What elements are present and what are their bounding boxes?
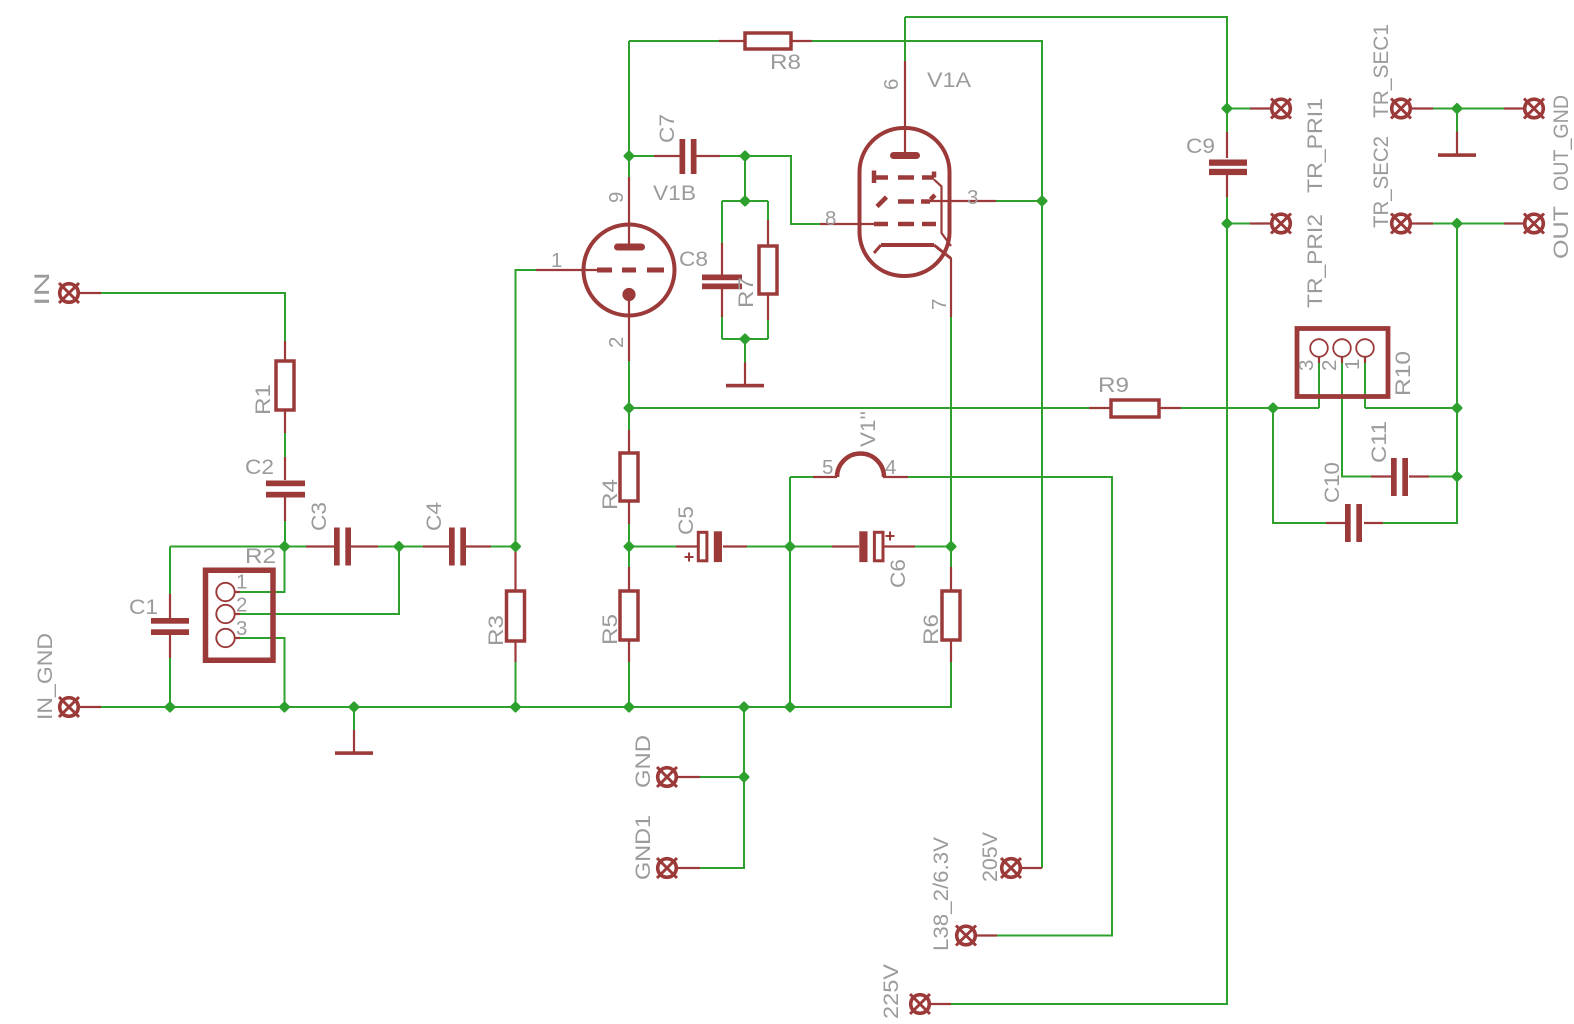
svg-text:C9: C9: [1186, 134, 1215, 158]
wire top net: [905, 17, 1227, 132]
wire R2 pin3: [240, 638, 285, 707]
wire R9 row right: [1181, 407, 1319, 409]
wire R10 pin1 to right col: [1365, 407, 1457, 409]
wire C2 to node: [284, 521, 286, 547]
pin stub C2 top: [284, 457, 286, 480]
wire R7 branch bottom: [767, 320, 769, 339]
pin stub R10 pin3: [1318, 357, 1320, 363]
pin stub C3 left: [306, 545, 334, 547]
pin stub L38: [977, 934, 997, 936]
wire heater right: [908, 477, 1112, 936]
wire V1B pin1 net: [516, 270, 537, 547]
wire V1B pin2 link: [628, 361, 630, 408]
node bus R5: [625, 703, 634, 712]
wire C1 bottom: [169, 658, 171, 707]
svg-text:C2: C2: [245, 455, 274, 479]
pin stub V1B pin9: [628, 177, 630, 246]
pin stub ground left: [353, 730, 355, 752]
node C2 C3: [280, 542, 289, 551]
pin stub R5 bottom: [628, 640, 630, 662]
wire IN net: [101, 293, 285, 341]
svg-text:TR_PRI2: TR_PRI2: [1303, 214, 1327, 308]
svg-text:V1A: V1A: [927, 68, 972, 92]
pin stub heater pin5: [813, 476, 837, 478]
wire R7 branch top: [767, 201, 769, 220]
pin stub C1 bottom: [169, 634, 171, 658]
node bus ground: [350, 703, 359, 712]
pin stub R6 bottom: [950, 640, 952, 662]
wire C3 to C4: [378, 546, 423, 548]
node C7 right: [741, 152, 750, 161]
ground symbol SEC: [1438, 153, 1476, 157]
node bus heater: [786, 703, 795, 712]
pin stub R3 top: [514, 551, 516, 591]
svg-text:GND1: GND1: [631, 815, 655, 880]
wire 225V riser: [951, 224, 1227, 1005]
wire ground bus: [101, 662, 951, 707]
wire R2 pin2: [240, 547, 399, 615]
pin stub C5 right: [723, 545, 747, 547]
node C3 C4: [395, 542, 404, 551]
node R7C8 bottom: [741, 335, 750, 344]
capacitor C10: [1345, 504, 1362, 542]
wire GND pad link: [700, 776, 744, 778]
pin stub R5 top: [628, 567, 630, 591]
wire V1A pin6: [904, 17, 906, 61]
node R4 C5: [625, 542, 634, 551]
wire R8 left riser: [628, 41, 630, 156]
svg-text:OUT_GND: OUT_GND: [1549, 95, 1573, 191]
pin stub V1B pin2: [628, 300, 630, 361]
wire R3 bottom: [515, 662, 517, 707]
tube V1B: [584, 225, 675, 316]
resistor R3: [507, 591, 525, 641]
node GND pad: [740, 773, 749, 782]
pin stub C8 top: [721, 243, 723, 275]
capacitor C6 polarized: [859, 531, 894, 562]
pin stub C11 left: [1371, 475, 1391, 477]
pad 205V: [1001, 858, 1021, 878]
wire R10 pin3 drop: [1318, 363, 1320, 408]
pin stub V1A pin3: [930, 200, 996, 202]
svg-text:R3: R3: [484, 615, 508, 646]
pin stub TR_SEC1: [1412, 107, 1433, 109]
wire TR_SEC2 row: [1433, 223, 1504, 225]
svg-text:R4: R4: [598, 479, 622, 510]
pin stub R8 left: [719, 40, 745, 42]
pin stub C1 top: [169, 594, 171, 618]
node TR_SEC2: [1453, 219, 1462, 228]
pin stub C9 top: [1226, 132, 1228, 158]
pin stub SEC ground: [1456, 132, 1458, 155]
svg-text:GND: GND: [631, 735, 655, 788]
svg-text:C7: C7: [655, 114, 679, 143]
svg-text:C6: C6: [886, 559, 910, 588]
resistor R6: [942, 591, 960, 640]
pin stub TR_SEC2: [1412, 222, 1433, 224]
pin stub R9 right: [1159, 407, 1181, 409]
pin stub 205V: [1022, 867, 1042, 869]
pin stub IN: [80, 292, 101, 294]
heater V1'' arc: [837, 454, 884, 478]
svg-text:C5: C5: [674, 506, 698, 535]
pin stub OUT_GND: [1504, 107, 1523, 109]
ground symbol R7C8: [726, 384, 764, 388]
pin stub GND1 pad: [678, 867, 700, 869]
svg-text:R8: R8: [770, 50, 801, 74]
capacitor C1: [151, 618, 189, 635]
svg-text:C8: C8: [679, 247, 708, 271]
wire R10 pin2 to C11: [1342, 363, 1371, 477]
pad TR_SEC2: [1391, 214, 1411, 234]
svg-text:V1B: V1B: [653, 181, 696, 205]
pad GND: [657, 767, 677, 787]
pin stub C11 right: [1409, 475, 1429, 477]
pin stub C3 right: [351, 545, 378, 547]
wire R1 to C2: [284, 433, 286, 457]
pin stub V1A pin8: [820, 223, 874, 225]
wire C5 to C6: [747, 546, 832, 548]
capacitor C2: [266, 481, 305, 498]
pin stub 225V: [931, 1003, 951, 1005]
wire R8 right: [812, 41, 1042, 201]
pin stub R7 top: [767, 220, 769, 246]
wire R7C8 ground stem: [744, 339, 746, 363]
node R7C8 top: [741, 197, 750, 206]
svg-text:7: 7: [928, 299, 951, 310]
wire heater drop: [789, 477, 791, 707]
pin stub V1A pin7: [950, 258, 952, 317]
node C4 R3: [511, 542, 520, 551]
svg-text:205V: 205V: [978, 831, 1002, 882]
pin stub C4 right: [466, 545, 491, 547]
svg-text:TR_PRI1: TR_PRI1: [1303, 98, 1327, 193]
wire R7C8 bottom bar: [722, 338, 768, 340]
wire V1A pin3 net: [996, 200, 1042, 202]
node C11 right: [1453, 472, 1462, 481]
pad OUT: [1524, 214, 1544, 234]
node V1A pin3: [1038, 197, 1047, 206]
pin stub R4 bottom: [628, 501, 630, 524]
pin stub C2 bottom: [284, 497, 286, 521]
svg-text:8: 8: [825, 207, 836, 230]
wire R7C8 top bar: [722, 200, 768, 202]
pin stub TR_PRI1: [1250, 107, 1270, 109]
wire R4 top: [628, 408, 630, 430]
wire GND drop: [700, 707, 744, 868]
svg-text:6: 6: [880, 79, 903, 90]
pin stub R1 top: [284, 341, 286, 361]
pin stub R1 bottom: [284, 410, 286, 433]
pin stub C7 left: [654, 155, 680, 157]
wire R9 row left: [629, 407, 1089, 409]
wire TR_SEC1 row: [1433, 108, 1504, 110]
svg-text:R5: R5: [598, 614, 622, 645]
pin stub V1A pin6: [904, 61, 906, 155]
capacitor C9: [1209, 160, 1247, 176]
svg-text:C11: C11: [1367, 421, 1391, 463]
node C9 bottom: [1223, 219, 1232, 228]
capacitor C4: [449, 528, 466, 566]
wire R2 pin1: [240, 547, 285, 593]
resistor R4: [620, 453, 638, 501]
wire right col down: [1383, 408, 1457, 523]
node bus R3: [511, 703, 520, 712]
wire R5 bottom: [628, 662, 630, 707]
wire heater left: [790, 476, 813, 478]
pad TR_SEC1: [1391, 99, 1411, 119]
capacitor C8: [702, 275, 742, 290]
svg-text:2: 2: [1318, 360, 1341, 371]
wire node row left of C3: [170, 546, 306, 548]
pin stub C9 bottom: [1226, 172, 1228, 197]
resistor R8: [745, 33, 791, 49]
node C5 C6: [786, 542, 795, 551]
wire ground stem: [353, 707, 355, 730]
pad 225V: [910, 994, 930, 1014]
svg-text:V1'': V1'': [856, 411, 880, 447]
svg-text:4: 4: [885, 456, 896, 479]
pin stub R6 top: [950, 567, 952, 591]
svg-text:3: 3: [236, 617, 247, 640]
wire C4 to R3 node: [491, 546, 516, 548]
svg-text:R7: R7: [734, 277, 758, 308]
node C9 top: [1223, 104, 1232, 113]
wire C8 branch top: [721, 201, 723, 243]
tube V1A: [860, 128, 952, 276]
pin stub R8 right: [791, 40, 812, 42]
pin stub C7 right: [696, 155, 720, 157]
pad TR_PRI1: [1271, 99, 1291, 119]
capacitor C11: [1391, 458, 1408, 496]
wire C11 right: [1429, 476, 1457, 478]
node bus C1: [166, 703, 175, 712]
node C7 left: [625, 152, 634, 161]
wire 205V riser: [1041, 201, 1043, 868]
svg-text:1: 1: [1341, 359, 1364, 370]
resistor R1: [276, 361, 294, 410]
pin stub R10 pin2: [1341, 357, 1343, 363]
pin stub IN_GND: [80, 706, 101, 708]
node C6 R6: [947, 542, 956, 551]
wire V1B pin9 link: [628, 156, 630, 177]
pin stub C4 left: [423, 545, 449, 547]
svg-text:R6: R6: [919, 614, 943, 645]
wire C7 left link: [629, 155, 654, 157]
pin stub R10 pin1: [1364, 357, 1366, 363]
pad IN_GND: [59, 697, 79, 717]
node bus R2: [280, 703, 289, 712]
wire C1 top: [169, 547, 171, 595]
svg-text:3: 3: [1295, 360, 1318, 371]
wire TR_PRI2 stub: [1227, 223, 1250, 225]
svg-text:C10: C10: [1320, 462, 1344, 503]
node bus GND: [740, 703, 749, 712]
svg-text:225V: 225V: [879, 963, 903, 1019]
pin stub TR_PRI2: [1250, 222, 1270, 224]
wire R5 top: [628, 547, 630, 568]
svg-text:R10: R10: [1391, 351, 1415, 396]
connector R10: [1297, 329, 1388, 397]
pad IN: [59, 283, 79, 303]
svg-text:2: 2: [236, 594, 247, 617]
pin stub C6 right: [884, 545, 915, 547]
wire R4 bottom node: [628, 524, 630, 547]
resistor R9: [1111, 400, 1159, 417]
svg-text:C3: C3: [307, 502, 331, 531]
svg-text:C4: C4: [422, 502, 446, 531]
pin stub R2 pin2: [235, 613, 241, 615]
node R4 top: [625, 404, 634, 413]
svg-text:OUT: OUT: [1549, 206, 1573, 259]
node R10 pin1: [1453, 404, 1462, 413]
pin stub R3 bottom: [514, 641, 516, 662]
pin stub V1B pin1: [536, 269, 597, 271]
wire R8 left: [629, 40, 719, 42]
svg-text:R2: R2: [245, 544, 276, 568]
resistor R5: [620, 591, 638, 640]
capacitor C3: [334, 528, 351, 566]
wire R10 pin1 drop: [1364, 363, 1366, 408]
wire TR_PRI1 stub: [1227, 108, 1250, 110]
svg-text:TR_SEC1: TR_SEC1: [1369, 24, 1393, 118]
pin stub R7 bottom: [767, 294, 769, 320]
wire C7 right link: [720, 156, 820, 224]
node R9 right: [1269, 404, 1278, 413]
svg-text:2: 2: [605, 337, 628, 348]
connector R2: [206, 570, 274, 660]
svg-text:IN: IN: [30, 272, 54, 306]
capacitor C7: [680, 139, 697, 174]
svg-text:9: 9: [605, 192, 628, 203]
wire C6 right: [915, 546, 951, 548]
pin stub C8 bottom: [721, 289, 723, 317]
pad GND1: [657, 858, 677, 878]
ground symbol main: [335, 751, 373, 755]
svg-text:R9: R9: [1098, 373, 1129, 397]
svg-text:IN_GND: IN_GND: [33, 633, 57, 720]
wire V1A pin7: [950, 317, 952, 547]
wire C8 branch bottom: [721, 289, 723, 339]
wire C10 left: [1273, 408, 1326, 523]
svg-text:3: 3: [967, 186, 978, 209]
pin stub R2 pin1: [235, 591, 241, 593]
wire R6 top: [950, 547, 952, 568]
pin stub OUT: [1504, 222, 1523, 224]
pin stub C5 left: [676, 545, 697, 547]
svg-text:C1: C1: [129, 595, 158, 619]
pad OUT_GND: [1524, 99, 1544, 119]
node TR_SEC1: [1453, 104, 1462, 113]
pin stub C10 left: [1326, 522, 1345, 524]
svg-text:R1: R1: [251, 384, 275, 415]
pin stub R2 pin3: [235, 637, 241, 639]
wire R7C8 drop: [744, 156, 746, 201]
pad TR_PRI2: [1271, 214, 1291, 234]
wire C5 left: [629, 546, 676, 548]
pin stub R4 top: [628, 430, 630, 453]
capacitor C5 polarized: [685, 531, 723, 562]
pin stub C10 right: [1364, 522, 1383, 524]
wire TR_SEC2 to R10 col: [1456, 224, 1458, 409]
svg-text:1: 1: [236, 571, 247, 594]
svg-text:5: 5: [822, 456, 833, 479]
svg-text:TR_SEC2: TR_SEC2: [1369, 136, 1393, 228]
resistor R7: [759, 246, 777, 294]
pin stub C6 left: [832, 545, 859, 547]
pin stub heater pin4: [883, 476, 908, 478]
pin stub R9 left: [1089, 407, 1111, 409]
svg-text:1: 1: [551, 249, 562, 272]
pad L38_2/6.3V: [956, 926, 976, 946]
pin stub R7C8 ground: [744, 363, 746, 385]
wire SEC ground stem: [1456, 109, 1458, 132]
pin stub GND pad: [678, 776, 700, 778]
svg-text:L38_2/6.3V: L38_2/6.3V: [929, 836, 953, 951]
wire C9 bottom: [1226, 197, 1228, 224]
